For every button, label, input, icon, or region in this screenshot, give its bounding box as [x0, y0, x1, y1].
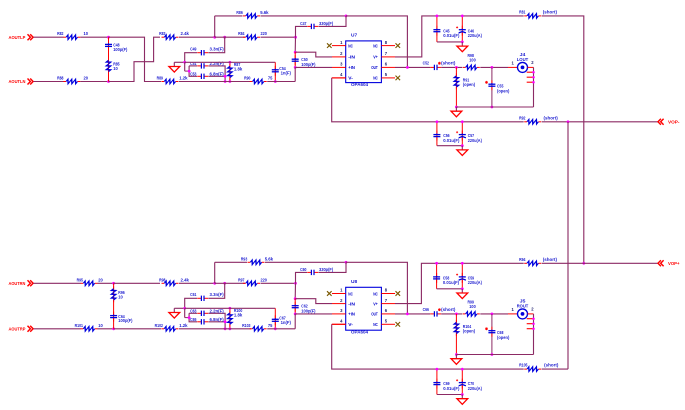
- svg-text:220: 220: [261, 31, 268, 36]
- svg-text:2.2n(F): 2.2n(F): [210, 308, 225, 313]
- ground: [455, 107, 457, 111]
- svg-text:VOP+: VOP+: [668, 261, 680, 267]
- resistor R84 220: [238, 31, 267, 39]
- resistor R101 10: [75, 323, 104, 331]
- resistor R85 10: [106, 58, 120, 74]
- svg-text:U8: U8: [351, 279, 358, 284]
- wire: [295, 52, 332, 57]
- wire: [109, 37, 161, 81]
- wire: [98, 328, 114, 330]
- svg-text:R89: R89: [157, 76, 164, 81]
- wire U7 V+: [395, 16, 524, 57]
- svg-text:AOUTRP: AOUTRP: [9, 326, 27, 332]
- capacitor C50 100p(F): [292, 52, 316, 67]
- capacitor C55 (open): [485, 67, 510, 107]
- svg-text:R98: R98: [159, 277, 166, 282]
- wire: [267, 81, 295, 83]
- wire: [456, 106, 533, 108]
- svg-text:(short): (short): [441, 307, 456, 312]
- svg-text:NC: NC: [373, 76, 378, 81]
- wire: [34, 328, 81, 330]
- wire: [109, 37, 162, 81]
- capacitor C69 0.01u(F): [433, 369, 459, 394]
- capacitor C57 220u(A): [456, 122, 482, 146]
- svg-text:1.8k: 1.8k: [234, 313, 243, 318]
- wire: [179, 282, 215, 284]
- svg-text:2.4k: 2.4k: [181, 31, 190, 36]
- wire: [294, 283, 296, 298]
- svg-text:220u(A): 220u(A): [468, 280, 483, 285]
- resistor R100 1.8k: [228, 308, 243, 329]
- wire: [542, 121, 658, 123]
- svg-text:C53: C53: [190, 71, 197, 76]
- wire: [346, 16, 407, 68]
- capacitor C66 (short): [423, 307, 456, 317]
- svg-text:C49: C49: [190, 47, 197, 52]
- svg-text:100: 100: [469, 58, 476, 63]
- wire: [294, 67, 296, 81]
- svg-text:-IN: -IN: [348, 301, 355, 306]
- svg-text:C65: C65: [190, 317, 197, 322]
- svg-text:V+: V+: [373, 55, 378, 60]
- wire U8 V+: [395, 263, 524, 303]
- svg-text:R88: R88: [57, 76, 64, 81]
- svg-text:1.2k: 1.2k: [179, 76, 188, 81]
- svg-text:R105: R105: [519, 363, 528, 368]
- svg-text:10: 10: [118, 295, 123, 300]
- wire: [395, 313, 430, 315]
- svg-text:ROUT: ROUT: [517, 303, 529, 308]
- svg-text:C60: C60: [300, 267, 307, 272]
- svg-text:20: 20: [84, 76, 89, 81]
- svg-text:AOUTRN: AOUTRN: [9, 281, 26, 287]
- wire: [185, 307, 276, 309]
- resistor R104 (open): [454, 314, 475, 355]
- no-connect pin 1: [327, 291, 332, 296]
- svg-text:100p(F): 100p(F): [118, 318, 133, 323]
- wire: [114, 328, 161, 330]
- svg-text:(short): (short): [544, 363, 559, 368]
- capacitor C60 330p(F): [296, 262, 347, 283]
- no-connect pin 5: [396, 76, 401, 81]
- svg-text:+IN: +IN: [348, 312, 355, 317]
- capacitor C68 (open): [485, 314, 510, 355]
- capacitor C49 3.3n(F): [185, 37, 225, 62]
- svg-text:AOUTLN: AOUTLN: [9, 79, 26, 85]
- wire: [294, 37, 296, 52]
- port AOUTRP: [9, 326, 34, 333]
- resistor R95 20: [77, 277, 104, 285]
- wire: [295, 299, 332, 304]
- ground: [455, 355, 457, 359]
- svg-text:1n(F): 1n(F): [281, 320, 292, 325]
- capacitor C53 6.8n(F): [189, 66, 225, 79]
- svg-text:0.01u(F): 0.01u(F): [443, 138, 460, 143]
- wire vertical VOP- to U8: [567, 122, 569, 369]
- wire: [114, 282, 160, 284]
- svg-text:C66: C66: [423, 307, 430, 312]
- wire: [80, 36, 108, 38]
- resistor R98 100: [463, 53, 480, 69]
- resistor R87 1.8k: [228, 62, 243, 82]
- ground: [461, 289, 463, 293]
- svg-text:R82: R82: [57, 31, 64, 36]
- capacitor C52 (short): [423, 60, 456, 70]
- wire: [215, 261, 247, 263]
- port AOUTRN: [9, 280, 34, 287]
- svg-text:5.6k: 5.6k: [260, 10, 269, 15]
- resistor R103 75: [242, 323, 273, 331]
- svg-text:VOP-: VOP-: [668, 119, 680, 125]
- svg-text:OPA604: OPA604: [351, 82, 369, 87]
- capacitor C63 2.2n(F): [185, 308, 225, 329]
- svg-text:0.01u(F): 0.01u(F): [443, 33, 460, 38]
- svg-text:3.3n(F): 3.3n(F): [210, 292, 225, 297]
- svg-text:R95: R95: [77, 277, 84, 282]
- wire: [179, 36, 215, 38]
- svg-text:R94: R94: [519, 257, 526, 262]
- svg-text:(short): (short): [543, 10, 558, 15]
- svg-text:R93: R93: [241, 256, 248, 261]
- wire: [395, 66, 430, 68]
- wire: [80, 81, 108, 83]
- wire: [214, 262, 216, 283]
- svg-text:220: 220: [261, 277, 268, 282]
- wire: [215, 15, 243, 17]
- port VOP+: [658, 260, 680, 267]
- wire: [441, 66, 462, 68]
- svg-text:R103: R103: [242, 323, 251, 328]
- svg-text:C63: C63: [190, 308, 197, 313]
- no-connect pin 8: [396, 291, 401, 296]
- svg-text:R83: R83: [159, 31, 166, 36]
- svg-text:C61: C61: [190, 292, 197, 297]
- wire: [34, 36, 64, 38]
- wire: [542, 368, 568, 370]
- svg-text:2.2n(F): 2.2n(F): [210, 61, 225, 66]
- capacitor C62 100p(F): [292, 299, 316, 314]
- wire: [261, 36, 296, 38]
- svg-text:2.4k: 2.4k: [181, 277, 190, 282]
- wire: [441, 313, 462, 315]
- svg-text:V-: V-: [348, 322, 353, 327]
- capacitor C47 330p(F): [296, 16, 347, 37]
- svg-text:75: 75: [268, 76, 273, 81]
- resistor R94 (short): [519, 257, 557, 266]
- svg-text:OUT: OUT: [371, 312, 378, 317]
- svg-text:OPA604: OPA604: [351, 329, 369, 334]
- ground: [169, 62, 185, 72]
- svg-text:-IN: -IN: [348, 55, 355, 60]
- wire: [214, 16, 216, 37]
- svg-text:R90: R90: [244, 76, 251, 81]
- wire: [437, 288, 463, 290]
- capacitor C61 3.3n(F): [185, 283, 225, 308]
- wire: [295, 313, 332, 315]
- connector J5 ROUT: [508, 299, 535, 330]
- svg-text:100p(F): 100p(F): [113, 47, 128, 52]
- svg-text:NC: NC: [373, 322, 378, 327]
- wire: [295, 66, 332, 68]
- svg-text:1.2k: 1.2k: [179, 323, 188, 328]
- capacitor C54 1n(F): [272, 62, 292, 81]
- resistor R96 10: [111, 286, 125, 302]
- svg-text:R86: R86: [236, 10, 243, 15]
- svg-text:6.8n(F): 6.8n(F): [210, 71, 225, 76]
- svg-text:C52: C52: [423, 60, 430, 65]
- svg-text:C47: C47: [300, 21, 307, 26]
- svg-text:NC: NC: [348, 43, 353, 48]
- svg-text:0.01u(F): 0.01u(F): [443, 280, 460, 285]
- wire: [480, 313, 508, 315]
- svg-text:220u(A): 220u(A): [468, 33, 483, 38]
- resistor R83 2.4k: [159, 31, 189, 39]
- svg-text:100: 100: [469, 304, 476, 309]
- svg-text:1.8k: 1.8k: [234, 67, 243, 72]
- svg-text:R97: R97: [238, 277, 245, 282]
- capacitor C70 220u(A): [456, 369, 482, 394]
- wire: [456, 354, 533, 356]
- wire: [261, 282, 296, 284]
- svg-text:V-: V-: [348, 76, 353, 81]
- svg-text:10: 10: [98, 323, 103, 328]
- wire: [185, 61, 276, 63]
- resistor R98 2.4k: [159, 277, 189, 285]
- no-connect pin 8: [396, 43, 401, 48]
- svg-text:220u(A): 220u(A): [468, 386, 483, 391]
- wire: [267, 328, 295, 330]
- resistor R91 (open): [454, 67, 475, 107]
- svg-text:LOUT: LOUT: [517, 57, 529, 62]
- op-amp U8 OPA604: [332, 279, 395, 334]
- wire: [480, 66, 508, 68]
- svg-text:V+: V+: [373, 301, 378, 306]
- resistor R102 1.2k: [155, 323, 189, 331]
- wire: [294, 314, 296, 329]
- svg-text:(short): (short): [544, 115, 559, 120]
- resistor R93 5.6k: [241, 256, 274, 264]
- ground: [461, 42, 463, 46]
- svg-text:(open): (open): [463, 329, 476, 334]
- wire: [113, 283, 115, 329]
- svg-text:NC: NC: [348, 291, 353, 296]
- resistor R81 (short): [519, 10, 557, 19]
- port VOP-: [658, 119, 680, 126]
- svg-text:(open): (open): [497, 88, 510, 93]
- svg-text:(open): (open): [463, 82, 476, 87]
- svg-text:330p(F): 330p(F): [319, 21, 334, 26]
- svg-text:R102: R102: [155, 323, 164, 328]
- svg-text:AOUTLP: AOUTLP: [9, 35, 27, 41]
- capacitor C46 220u(A): [456, 16, 482, 42]
- svg-text:NC: NC: [373, 43, 378, 48]
- svg-text:75: 75: [268, 323, 273, 328]
- no-connect pin 1: [327, 43, 332, 48]
- resistor R92 (short): [519, 115, 558, 124]
- capacitor C48 100p(F): [105, 40, 128, 52]
- ground: [461, 395, 463, 399]
- wire: [437, 394, 462, 396]
- capacitor C58 0.01u(F): [433, 263, 459, 289]
- resistor R99 100: [463, 300, 480, 316]
- connector J4 LOUT: [508, 52, 535, 83]
- wire U7 V-: [332, 77, 346, 79]
- resistor R86 5.6k: [236, 10, 269, 18]
- svg-text:+IN: +IN: [348, 65, 355, 70]
- svg-text:R81: R81: [519, 10, 526, 15]
- svg-text:100p(F): 100p(F): [301, 308, 316, 313]
- svg-text:(short): (short): [543, 257, 558, 262]
- svg-text:0.01u(F): 0.01u(F): [443, 386, 460, 391]
- resistor R105 (short): [519, 363, 559, 372]
- capacitor C45 0.01u(F): [433, 16, 459, 42]
- wire: [179, 328, 251, 330]
- wire: [437, 41, 462, 43]
- resistor R82 10: [57, 31, 88, 39]
- no-connect pin 5: [396, 322, 401, 327]
- svg-text:6.8n(F): 6.8n(F): [210, 317, 225, 322]
- resistor R88 20: [57, 76, 88, 84]
- svg-text:10: 10: [113, 66, 118, 71]
- svg-text:R84: R84: [238, 31, 245, 36]
- wire: [34, 81, 64, 83]
- wire: [108, 37, 110, 81]
- svg-text:C51: C51: [190, 61, 197, 66]
- capacitor C67 1n(F): [272, 308, 292, 329]
- svg-text:5.6k: 5.6k: [265, 256, 274, 261]
- svg-text:(short): (short): [441, 60, 456, 65]
- svg-text:330p(F): 330p(F): [319, 267, 334, 272]
- capacitor C56 0.01u(F): [433, 122, 459, 146]
- svg-text:220u(A): 220u(A): [468, 138, 483, 143]
- wire U8 V-: [332, 323, 346, 325]
- capacitor C64 100p(F): [110, 312, 133, 324]
- svg-text:R101: R101: [75, 323, 84, 328]
- svg-text:(open): (open): [497, 335, 510, 340]
- svg-text:U7: U7: [351, 33, 358, 38]
- svg-text:1n(F): 1n(F): [281, 71, 292, 76]
- port AOUTLP: [9, 34, 34, 41]
- resistor R90 75: [244, 76, 273, 84]
- svg-text:3.3n(F): 3.3n(F): [210, 47, 225, 52]
- svg-text:10: 10: [84, 31, 89, 36]
- wire: [346, 262, 407, 314]
- capacitor C51 2.2n(F): [185, 61, 225, 82]
- wire: [179, 81, 251, 83]
- wire: [98, 282, 114, 284]
- resistor R97 220: [238, 277, 267, 285]
- op-amp U7 OPA604: [332, 33, 395, 87]
- capacitor C59 220u(A): [456, 263, 482, 289]
- svg-text:100p(F): 100p(F): [301, 62, 316, 67]
- resistor R89 1.2k: [157, 76, 189, 84]
- svg-text:R92: R92: [519, 115, 526, 120]
- ground: [169, 308, 185, 318]
- svg-text:20: 20: [98, 277, 103, 282]
- wire: [542, 262, 658, 264]
- wire: [34, 282, 81, 284]
- wire: [437, 145, 462, 147]
- svg-text:OUT: OUT: [371, 65, 378, 70]
- port AOUTLN: [9, 79, 34, 86]
- capacitor C65 6.8n(F): [189, 313, 225, 324]
- svg-text:NC: NC: [373, 291, 378, 296]
- ground: [461, 146, 463, 150]
- wire: [542, 16, 584, 263]
